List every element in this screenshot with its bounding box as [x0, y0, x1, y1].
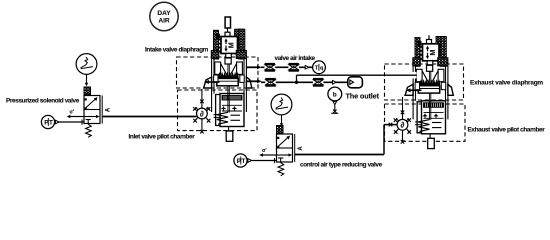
svg-text:b: b: [333, 92, 337, 99]
svg-text:DAY: DAY: [157, 10, 171, 17]
svg-text:∂: ∂: [200, 109, 204, 118]
svg-text:valve air intake: valve air intake: [275, 55, 316, 62]
svg-text:Intake valve diaphragm: Intake valve diaphragm: [145, 47, 209, 54]
svg-text:∂: ∂: [401, 121, 405, 130]
svg-text:control air type reducing valv: control air type reducing valve: [300, 161, 383, 168]
svg-text:Inlet valve pilot chamber: Inlet valve pilot chamber: [129, 133, 196, 140]
svg-text:q: q: [320, 66, 323, 72]
svg-text:The outlet: The outlet: [346, 92, 380, 101]
svg-text:Exhaust valve pilot chamber: Exhaust valve pilot chamber: [468, 126, 546, 133]
svg-text:Exhaust valve diaphragm: Exhaust valve diaphragm: [470, 79, 543, 86]
svg-text:Pressurized solenoid valve: Pressurized solenoid valve: [6, 98, 80, 105]
svg-text:AIR: AIR: [158, 18, 170, 25]
